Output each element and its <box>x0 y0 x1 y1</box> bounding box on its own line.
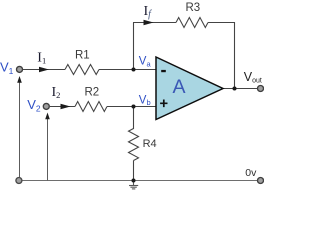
resistor R4 <box>129 129 139 161</box>
wire R4 to ground rail <box>133 161 135 181</box>
terminal V2 <box>43 103 49 109</box>
wire V2 to R2 <box>50 106 75 108</box>
wire R2 to op-amp plus input <box>107 106 156 108</box>
svg-text:Vb: Vb <box>139 94 151 107</box>
wire R1 to op-amp minus input <box>99 69 156 71</box>
resistor R3 <box>176 18 208 28</box>
wire 0v rail <box>20 180 257 182</box>
resistor R1 <box>65 65 99 75</box>
terminal Vout <box>258 86 264 92</box>
ground <box>129 181 138 189</box>
node Vb junction <box>132 105 136 109</box>
node Va junction <box>132 68 136 72</box>
terminal rail left <box>16 178 22 184</box>
svg-text:0v: 0v <box>245 167 257 179</box>
svg-text:V1: V1 <box>0 60 14 77</box>
wire feedback top to R3 <box>133 22 176 24</box>
terminal 0v right <box>258 178 264 184</box>
svg-text:If: If <box>144 4 153 20</box>
op-amp minus sign <box>161 70 166 72</box>
svg-text:R3: R3 <box>186 2 201 14</box>
svg-text:I1: I1 <box>37 51 46 66</box>
wire V1 to R1 <box>23 69 65 71</box>
node ground junction <box>132 179 136 183</box>
op-amp plus sign <box>160 100 167 108</box>
svg-text:Va: Va <box>139 56 152 69</box>
svg-text:V2: V2 <box>27 97 41 114</box>
current arrow I1 <box>39 67 49 72</box>
wire feedback vertical left (node Va up) <box>133 23 135 70</box>
wire R3 to feedback corner <box>208 22 235 24</box>
wire V2 reference arrow <box>47 119 49 181</box>
op-amp U1 <box>156 57 223 120</box>
wire output <box>222 88 257 90</box>
svg-text:A: A <box>173 76 186 98</box>
svg-text:Vout: Vout <box>244 70 262 85</box>
svg-text:R2: R2 <box>85 86 100 98</box>
svg-text:R1: R1 <box>75 50 90 62</box>
current arrow I2 <box>61 104 71 109</box>
node output junction <box>233 87 237 91</box>
wire feedback vertical right <box>234 22 236 89</box>
wire node Vb down to R4 <box>133 107 135 130</box>
svg-text:R4: R4 <box>143 138 157 150</box>
svg-text:I2: I2 <box>52 85 61 100</box>
wire V1 reference arrow <box>19 82 21 181</box>
current arrow If <box>144 20 154 25</box>
resistor R2 <box>75 102 107 112</box>
terminal V1 <box>17 66 23 72</box>
